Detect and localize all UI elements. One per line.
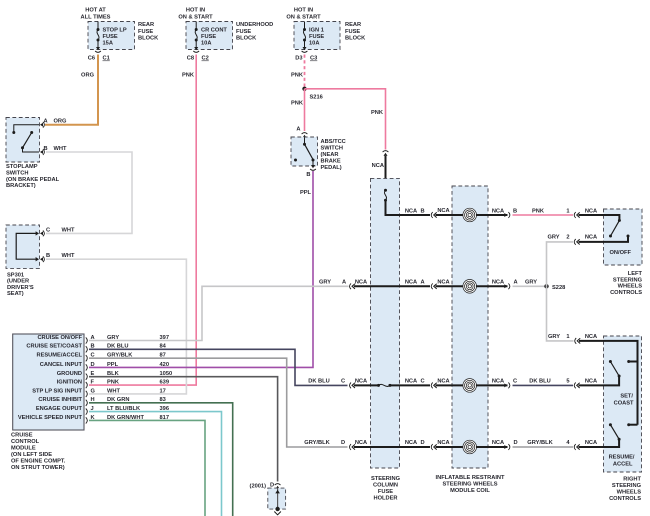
label STEERING COLUMN FUSE HOLDER: [371, 476, 401, 502]
svg-text:D: D: [91, 362, 95, 368]
svg-text:NCA: NCA: [437, 440, 449, 446]
connector row B left ((: [405, 208, 437, 218]
label STOPLAMP SWITCH (ON BRAKE PEDAL BRACKET): [6, 164, 60, 189]
svg-text:D: D: [270, 483, 274, 489]
svg-text:BRAKE: BRAKE: [321, 159, 341, 165]
svg-text:10A: 10A: [201, 41, 211, 47]
wire NCA row A through fuse holder: [354, 285, 430, 287]
connector row D exit ): [504, 440, 517, 450]
wire NCA fuse to row B: [386, 200, 431, 215]
svg-text:C2: C2: [202, 56, 209, 62]
connector pin 1 left controls ((: [574, 208, 597, 218]
connector row B exit ): [504, 208, 517, 218]
svg-text:ON & START: ON & START: [286, 15, 321, 21]
svg-text:(2001): (2001): [250, 484, 267, 490]
svg-text:NCA: NCA: [492, 280, 504, 286]
svg-text:NCA: NCA: [405, 379, 417, 385]
svg-text:GRY: GRY: [319, 280, 331, 286]
svg-text:NCA: NCA: [492, 379, 504, 385]
wire NCA pin 2 into ON/OFF switch: [579, 236, 629, 242]
svg-text:C3: C3: [310, 56, 317, 62]
svg-text:B: B: [420, 208, 424, 214]
module pin F IGNITION: [57, 380, 169, 389]
wire PNK dashed from C3 to S216: [304, 55, 306, 89]
rear fuse block 1 (STOP LP): [88, 22, 135, 50]
svg-text:A: A: [513, 280, 517, 286]
coil (row D): [463, 440, 477, 454]
svg-text:17: 17: [160, 388, 166, 394]
svg-text:GRY: GRY: [547, 235, 559, 241]
svg-text:C8: C8: [187, 56, 194, 62]
svg-text:639: 639: [160, 380, 170, 386]
svg-text:STEERING: STEERING: [613, 277, 643, 283]
svg-text:ALL TIMES: ALL TIMES: [81, 15, 111, 21]
wire PNK from S216 to ABS/TCC switch A: [304, 89, 306, 131]
connector row A GRY to NCA ((: [319, 280, 367, 290]
svg-text:WHEELS: WHEELS: [618, 284, 643, 290]
svg-text:COLUMN: COLUMN: [373, 483, 398, 489]
wire NCA row B coil to exit connector: [476, 208, 508, 215]
svg-text:NCA: NCA: [437, 379, 449, 385]
label SP301 (UNDER DRIVERS SEAT): [7, 272, 34, 297]
wire NCA pin1 into ON/OFF switch: [579, 215, 620, 219]
label ABS/TCC SWITCH (NEAR BRAKE PEDAL): [321, 139, 346, 171]
fuse STOP LP 15A: [97, 22, 100, 48]
pin B ABS/TCC: [306, 165, 316, 178]
svg-text:FUSE: FUSE: [236, 29, 251, 35]
svg-text:NCA: NCA: [355, 379, 367, 385]
svg-text:FUSE: FUSE: [138, 29, 153, 35]
svg-text:PNK: PNK: [532, 208, 545, 214]
svg-text:CR CONT: CR CONT: [201, 27, 227, 33]
ABS/TCC switch contacts and blade: [294, 138, 315, 166]
wire NCA row D into coil box: [436, 440, 464, 447]
svg-text:GROUND: GROUND: [57, 371, 82, 377]
label REAR FUSE BLOCK: [138, 22, 159, 42]
svg-text:PNK: PNK: [291, 73, 304, 79]
fuse (in steering column fuse holder): [384, 189, 387, 202]
svg-text:REAR: REAR: [345, 22, 361, 28]
underhood fuse block (CR CONT): [186, 22, 233, 50]
svg-text:ACCEL: ACCEL: [613, 461, 633, 467]
module pin C RESUME/ACCEL: [36, 353, 165, 362]
wire GRY/BLK module C toward fuse holder: [89, 358, 348, 447]
pin B SP301: [40, 253, 75, 262]
svg-text:WHT: WHT: [62, 253, 75, 259]
svg-text:SEAT): SEAT): [7, 291, 24, 297]
svg-text:10A: 10A: [309, 41, 319, 47]
connector pin 2 left controls ((: [574, 235, 597, 245]
wire WHT stoplamp B to SP301 C: [46, 152, 132, 233]
label LEFT STEERING WHEELS CONTROLS: [610, 271, 642, 296]
wire LT BLU/BLK module J: [89, 412, 222, 516]
svg-text:D: D: [341, 440, 345, 446]
wire BLK module E to ground connector: [89, 377, 278, 482]
wire DK BLU row C to pin 5: [513, 379, 574, 386]
svg-text:PNK: PNK: [291, 101, 304, 107]
connector row C exit ): [504, 379, 517, 389]
svg-text:DRIVER'S: DRIVER'S: [7, 285, 34, 291]
svg-text:S228: S228: [552, 285, 565, 291]
svg-text:UNDERHOOD: UNDERHOOD: [236, 22, 273, 28]
svg-text:WHT: WHT: [54, 146, 67, 152]
label CRUISE CONTROL MODULE (ON LEFT SIDE OF ENGINE COMPT. ON STRUT TOWER): [11, 433, 66, 472]
wire NCA row C into coil box: [436, 379, 464, 386]
svg-text:B: B: [44, 146, 48, 152]
SET/COAST switch: [609, 360, 638, 378]
stoplamp switch contacts and blade: [12, 125, 39, 152]
wire NCA row A coil to exit: [476, 280, 508, 287]
svg-text:C: C: [46, 227, 50, 233]
wire DK GRN module H: [89, 403, 233, 516]
stoplamp switch box: [6, 118, 40, 163]
connector C6 / C1: [88, 47, 110, 62]
svg-text:A: A: [342, 280, 346, 286]
wire PNK row B to left controls pin 1: [513, 208, 574, 215]
wire GRY S228 down to pin 1 right controls: [547, 286, 574, 341]
svg-text:C: C: [420, 379, 424, 385]
module pin D CANCEL INPUT: [40, 362, 169, 371]
svg-text:SWITCH: SWITCH: [321, 146, 343, 152]
splice S228: [544, 284, 565, 291]
svg-text:(ON BRAKE PEDAL: (ON BRAKE PEDAL: [6, 177, 60, 183]
wire NCA pin 4 into RESUME/ACCEL switch: [579, 440, 620, 447]
svg-text:FUSE: FUSE: [103, 34, 118, 40]
svg-text:NCA: NCA: [405, 280, 417, 286]
module pin H CRUISE INHIBIT: [38, 397, 165, 406]
connector pin 4 right controls ((: [574, 440, 597, 450]
connector row A exit ): [504, 280, 517, 290]
wire GRY S228 up to pin 2: [547, 235, 574, 287]
svg-text:MODULE COIL: MODULE COIL: [450, 488, 490, 494]
svg-text:F: F: [91, 380, 95, 386]
svg-text:FUSE: FUSE: [309, 34, 324, 40]
svg-text:1: 1: [566, 334, 569, 340]
connector pin 5 right controls ((: [574, 379, 597, 389]
svg-text:NCA: NCA: [405, 440, 417, 446]
svg-text:MODULE: MODULE: [11, 446, 36, 452]
svg-text:STOP LP: STOP LP: [103, 27, 127, 33]
ground splice box: [268, 488, 286, 509]
svg-text:CANCEL INPUT: CANCEL INPUT: [40, 362, 83, 368]
wire NCA row C coil to exit: [476, 379, 508, 386]
svg-text:FUSE: FUSE: [345, 29, 360, 35]
connector row D GRY/BLK to NCA ((: [304, 440, 367, 450]
wire NCA row D through fuse holder: [354, 446, 430, 448]
svg-text:DK BLU: DK BLU: [529, 379, 550, 385]
svg-text:ORG: ORG: [81, 73, 95, 79]
svg-text:STEERING: STEERING: [612, 483, 642, 489]
label UNDERHOOD FUSE BLOCK: [236, 22, 273, 42]
svg-text:NCA: NCA: [355, 440, 367, 446]
svg-text:2: 2: [566, 235, 569, 241]
RESUME/ACCEL switch: [609, 423, 638, 441]
svg-text:BLOCK: BLOCK: [345, 36, 366, 42]
svg-text:VEHICLE SPEED INPUT: VEHICLE SPEED INPUT: [18, 415, 83, 421]
wire GRY row A to splice S228: [513, 280, 547, 287]
pin B stoplamp: [40, 146, 67, 155]
svg-text:D: D: [420, 440, 424, 446]
svg-text:FUSE: FUSE: [378, 489, 393, 495]
svg-text:NCA: NCA: [585, 334, 597, 340]
svg-text:G: G: [91, 388, 96, 394]
svg-text:LEFT: LEFT: [628, 271, 643, 277]
svg-text:420: 420: [160, 362, 170, 368]
svg-text:WHEELS: WHEELS: [617, 490, 642, 496]
label HOT IN ON & START (underhood): [178, 8, 213, 21]
coil (row A): [463, 280, 477, 294]
wire WHT SP301 B to module pin G: [46, 259, 186, 394]
pin C SP301: [40, 227, 75, 236]
svg-text:GRY/BLK: GRY/BLK: [304, 440, 330, 446]
module pin B CRUISE SET/COAST: [26, 344, 166, 353]
connector pin 1 right controls ((: [575, 334, 597, 344]
connector D3 / C3: [295, 47, 317, 62]
svg-text:GRY: GRY: [525, 280, 537, 286]
steering column fuse holder box: [371, 178, 400, 468]
wire PPL ABS/TCC B to module pin D: [89, 171, 313, 367]
svg-text:BLOCK: BLOCK: [236, 36, 257, 42]
wire NCA row C fuse to mid connector: [389, 384, 431, 386]
svg-text:ENGAGE OUPUT: ENGAGE OUPUT: [36, 406, 83, 412]
svg-text:NCA: NCA: [585, 235, 597, 241]
svg-text:NCA: NCA: [585, 440, 597, 446]
svg-text:SP301: SP301: [7, 272, 24, 278]
svg-text:IGNITION: IGNITION: [57, 380, 82, 386]
svg-text:NCA: NCA: [492, 208, 504, 214]
label RESUME/ACCEL: [609, 455, 635, 468]
svg-text:S216: S216: [310, 95, 323, 101]
wire NCA into fuse holder: [385, 156, 387, 190]
wire NCA row C to inline fuse: [354, 384, 378, 386]
right steering wheels controls box: [604, 336, 642, 472]
svg-text:PPL: PPL: [300, 190, 312, 196]
ON/OFF switch: [609, 219, 630, 238]
splice S216: [302, 87, 322, 101]
svg-text:(ON LEFT SIDE: (ON LEFT SIDE: [11, 452, 52, 458]
svg-text:IGN 1: IGN 1: [309, 27, 324, 33]
svg-text:REAR: REAR: [138, 22, 154, 28]
svg-text:HOT IN: HOT IN: [186, 8, 205, 14]
svg-text:RESUME/: RESUME/: [609, 455, 635, 461]
svg-text:PNK: PNK: [107, 380, 120, 386]
svg-text:CRUISE SET/COAST: CRUISE SET/COAST: [26, 344, 82, 350]
svg-text:GRY/BLK: GRY/BLK: [527, 440, 553, 446]
wire NCA row B into coil box: [436, 208, 464, 215]
connector (2001) D: [250, 483, 281, 490]
svg-text:PPL: PPL: [107, 362, 119, 368]
svg-text:NCA: NCA: [585, 379, 597, 385]
connector below ground box: [274, 512, 281, 515]
inflatable restraint steering wheels module coil box: [452, 186, 488, 468]
svg-text:1: 1: [566, 208, 569, 214]
coil (row B): [463, 208, 477, 222]
svg-text:PNK: PNK: [371, 110, 384, 116]
coil (row C): [463, 379, 477, 393]
svg-text:DK BLU: DK BLU: [308, 379, 329, 385]
fuse CR CONT 10A: [195, 22, 198, 48]
svg-text:GRY: GRY: [548, 334, 560, 340]
fuse IGN 1 10A: [303, 22, 306, 48]
ground wire with up arrow: [275, 489, 280, 510]
svg-text:WHT: WHT: [62, 227, 75, 233]
svg-text:NCA: NCA: [355, 280, 367, 286]
connector row D mid ((: [405, 440, 437, 450]
wire GRY module A to connector: [89, 286, 349, 340]
svg-text:HOT AT: HOT AT: [85, 8, 106, 14]
ground splice dot: [275, 507, 279, 511]
module pin A CRUISE ON/OFF: [37, 335, 169, 344]
label INFLATABLE RESTRAINT STEERING WHEELS MODULE COIL: [436, 475, 506, 494]
svg-text:B: B: [513, 208, 517, 214]
svg-text:CRUISE: CRUISE: [11, 433, 33, 439]
svg-text:HOLDER: HOLDER: [373, 496, 397, 502]
svg-text:ON/OFF: ON/OFF: [610, 250, 632, 256]
wire NCA pin 5 into SET/COAST switch: [579, 377, 620, 386]
svg-text:STEERING WHEELS: STEERING WHEELS: [443, 482, 498, 488]
svg-text:WHT: WHT: [107, 388, 120, 394]
label HOT IN ON & START (rear): [286, 8, 321, 21]
svg-text:ORG: ORG: [54, 119, 68, 125]
connector C8 / C2: [187, 47, 209, 62]
svg-text:HOT IN: HOT IN: [294, 8, 313, 14]
svg-text:C: C: [513, 379, 517, 385]
pin A stoplamp: [40, 119, 67, 128]
svg-text:SET/: SET/: [620, 394, 633, 400]
svg-text:RIGHT: RIGHT: [623, 477, 641, 483]
module pin J ENGAGE OUPUT: [36, 406, 169, 415]
label HOT AT ALL TIMES: [81, 8, 111, 21]
svg-text:D: D: [513, 440, 517, 446]
splice pack SP301 box: [6, 225, 40, 268]
svg-text:BRACKET): BRACKET): [6, 183, 36, 189]
svg-text:NCA: NCA: [372, 163, 384, 169]
svg-text:FUSE: FUSE: [201, 34, 216, 40]
svg-text:(NEAR: (NEAR: [321, 152, 339, 158]
svg-text:C1: C1: [103, 56, 110, 62]
cruise control module box: [13, 334, 84, 430]
svg-text:PEDAL): PEDAL): [321, 165, 342, 171]
svg-text:15A: 15A: [103, 41, 113, 47]
wire GRY/BLK row D to pin 4: [513, 440, 574, 447]
label REAR FUSE BLOCK (2): [345, 22, 366, 42]
connector row A mid ((: [405, 280, 437, 290]
svg-text:B: B: [306, 172, 310, 178]
svg-text:STOPLAMP: STOPLAMP: [6, 164, 38, 170]
connector PNK to NCA (above fuse holder): [372, 151, 389, 169]
svg-text:STP LP SIG INPUT: STP LP SIG INPUT: [32, 388, 82, 394]
module pin E GROUND: [57, 371, 172, 380]
svg-text:B: B: [46, 253, 50, 259]
pin A ABS/TCC: [296, 127, 307, 138]
wire DK BLU module B toward fuse holder: [89, 349, 348, 385]
inline fuse (row C in fuse holder): [377, 384, 392, 387]
wire ORG from fuse C1 to stoplamp switch A: [45, 55, 98, 125]
svg-text:RESUME/ACCEL: RESUME/ACCEL: [36, 353, 82, 359]
svg-text:COAST: COAST: [614, 400, 634, 406]
svg-text:CRUISE INHIBIT: CRUISE INHIBIT: [38, 397, 82, 403]
module pin G STP LP SIG INPUT: [32, 388, 166, 397]
svg-text:NCA: NCA: [492, 440, 504, 446]
label RIGHT STEERING WHEELS CONTROLS: [609, 477, 641, 503]
svg-text:ON & START: ON & START: [178, 15, 213, 21]
svg-text:OF ENGINE COMPT.: OF ENGINE COMPT.: [11, 459, 66, 465]
svg-text:SWITCH: SWITCH: [6, 170, 28, 176]
svg-text:C: C: [341, 379, 345, 385]
wire NCA row A into coil box: [436, 280, 464, 287]
svg-text:CONTROLS: CONTROLS: [609, 496, 641, 502]
svg-text:4: 4: [566, 440, 570, 446]
svg-text:BLOCK: BLOCK: [138, 36, 159, 42]
svg-text:STEERING: STEERING: [371, 476, 401, 482]
left steering wheels controls box: [604, 209, 643, 265]
svg-text:CONTROL: CONTROL: [11, 439, 40, 445]
rear fuse block 3 (IGN 1): [294, 22, 340, 50]
svg-text:NCA: NCA: [405, 208, 417, 214]
svg-text:ABS/TCC: ABS/TCC: [321, 139, 346, 145]
svg-text:INFLATABLE RESTRAINT: INFLATABLE RESTRAINT: [436, 475, 506, 481]
svg-text:A: A: [420, 280, 424, 286]
svg-text:D3: D3: [295, 56, 302, 62]
svg-text:5: 5: [566, 379, 569, 385]
module pin K VEHICLE SPEED INPUT: [18, 415, 169, 424]
svg-text:A: A: [296, 127, 300, 133]
svg-text:CONTROLS: CONTROLS: [610, 290, 642, 296]
SP301 bus bar: [16, 231, 39, 261]
connector row C mid ((: [405, 379, 437, 389]
label SET/COAST: [614, 394, 634, 407]
svg-text:PNK: PNK: [182, 73, 195, 79]
svg-text:A: A: [44, 119, 48, 125]
wire DK GRN/WHT module K: [89, 420, 205, 516]
ABS/TCC switch box: [291, 137, 318, 166]
wire PNK from fuse C2 to module pin F: [89, 55, 196, 386]
svg-text:NCA: NCA: [437, 280, 449, 286]
connector row C DK BLU to NCA ((: [308, 379, 367, 389]
svg-text:NCA: NCA: [585, 208, 597, 214]
wire PNK branch S216 to steering column fuse holder: [305, 89, 386, 150]
svg-text:CRUISE ON/OFF: CRUISE ON/OFF: [37, 335, 82, 341]
svg-text:NCA: NCA: [437, 208, 449, 214]
wire NCA row D coil to exit: [476, 440, 508, 447]
svg-text:(UNDER: (UNDER: [7, 279, 29, 285]
wire NCA pin 1 into right controls bus: [579, 341, 638, 425]
svg-text:ON STRUT TOWER): ON STRUT TOWER): [11, 465, 65, 471]
svg-text:C6: C6: [88, 56, 95, 62]
